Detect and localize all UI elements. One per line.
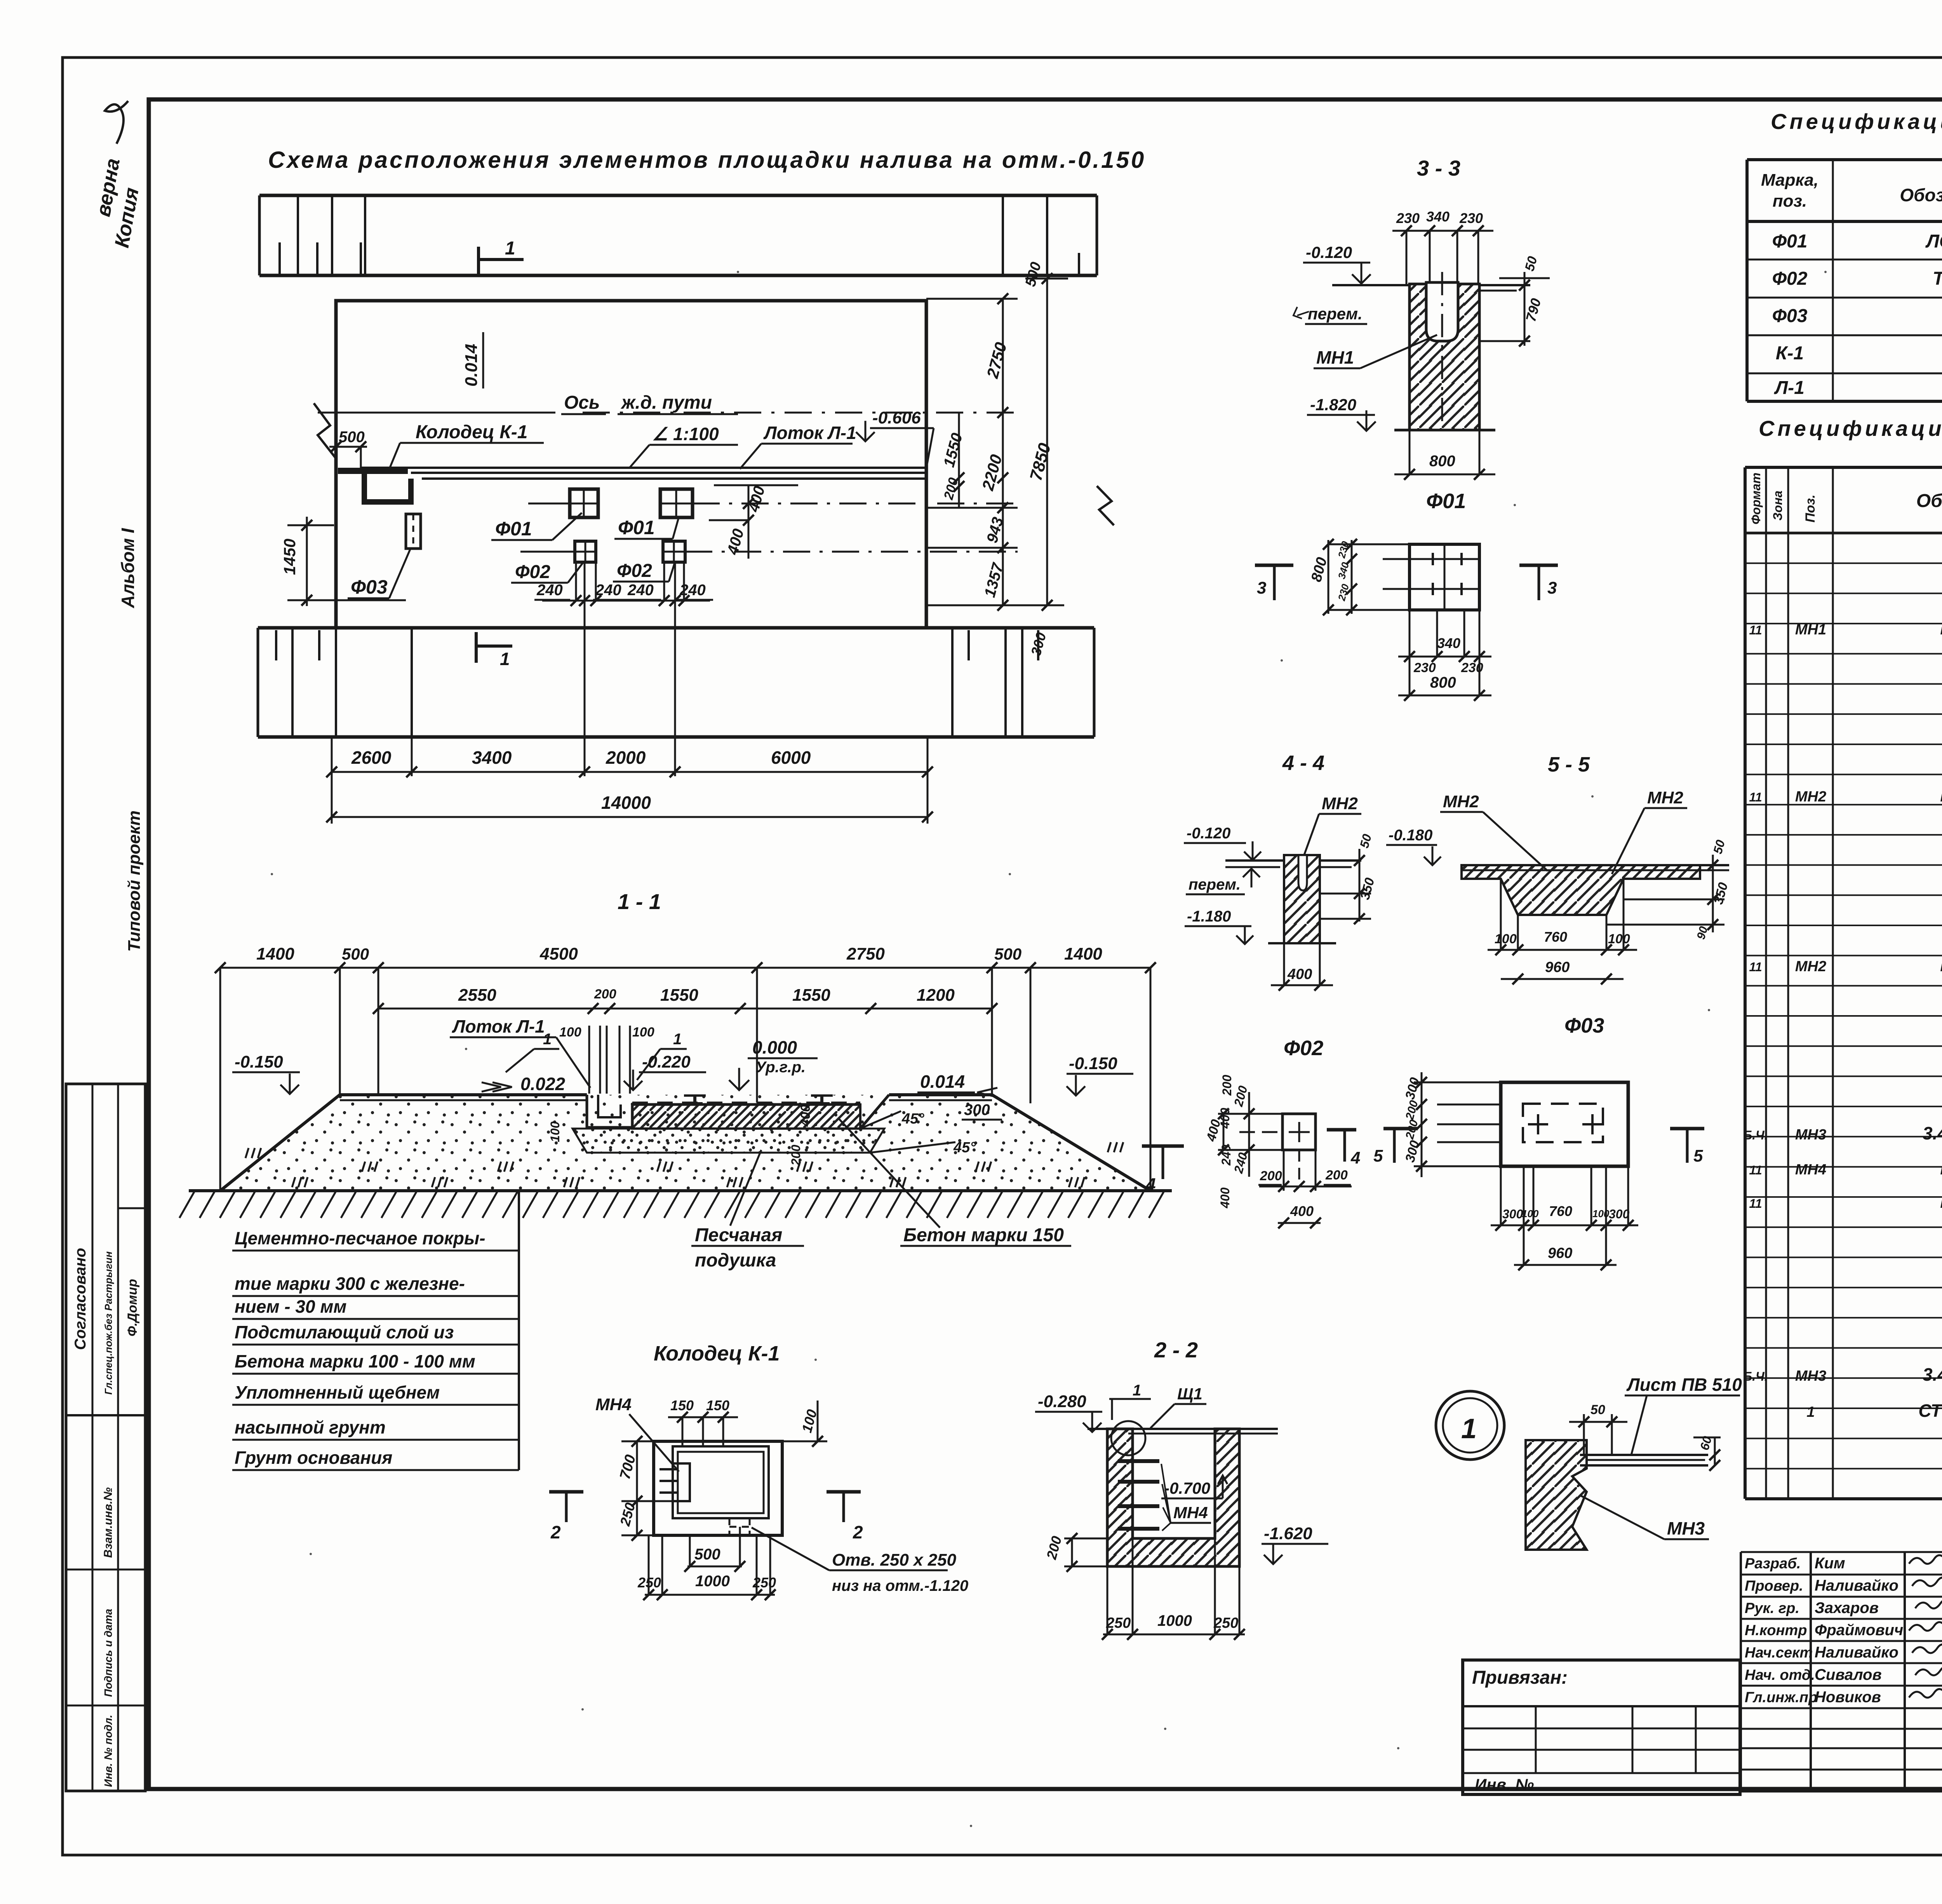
svg-text:Спецификация элементов монолит: Спецификация элементов монолитной констр…: [1759, 416, 1942, 441]
svg-text:11: 11: [1749, 1197, 1762, 1211]
svg-text:500: 500: [339, 429, 365, 446]
5-5 slab hatched: [1462, 865, 1700, 915]
svg-text:1: 1: [1133, 1382, 1141, 1399]
svg-text:240: 240: [627, 582, 654, 599]
svg-text:230: 230: [1413, 660, 1436, 675]
svg-text:МН3: МН3: [1667, 1518, 1705, 1538]
node detail plate: [1580, 1454, 1708, 1456]
svg-text:1: 1: [500, 649, 510, 669]
svg-text:3.400-6/76: 3.400-6/76: [1923, 1123, 1942, 1143]
svg-text:200: 200: [1220, 1075, 1234, 1096]
K-1 dims left: [636, 1441, 638, 1535]
3-3 floor lines: [1332, 284, 1410, 286]
svg-text:Уплотненный щебнем: Уплотненный щебнем: [235, 1382, 440, 1402]
svg-text:230: 230: [1396, 210, 1420, 226]
svg-text:2000: 2000: [606, 747, 646, 768]
svg-text:-0.606: -0.606: [872, 408, 921, 427]
scan speckles: [271, 873, 273, 875]
svg-text:МН3: МН3: [1795, 1368, 1826, 1384]
svg-text:-0.150: -0.150: [235, 1052, 283, 1071]
svg-text:11: 11: [1749, 960, 1762, 974]
plan bottom dims: [331, 737, 333, 824]
svg-text:200: 200: [1325, 1168, 1348, 1183]
svg-text:КЖИ2: КЖИ2: [1940, 955, 1942, 975]
svg-text:3: 3: [1257, 578, 1266, 598]
svg-text:1: 1: [673, 1031, 682, 1048]
svg-text:800: 800: [1429, 453, 1455, 470]
Ф03 plan rect: [1501, 1082, 1628, 1166]
svg-text:МН4: МН4: [1173, 1503, 1208, 1522]
svg-text:насыпной грунт: насыпной грунт: [235, 1417, 386, 1437]
Ф03 left dims: [1421, 1072, 1423, 1177]
svg-text:МН1: МН1: [1795, 622, 1826, 638]
svg-text:760: 760: [1544, 929, 1567, 945]
svg-text:2: 2: [853, 1522, 863, 1542]
svg-text:5: 5: [1373, 1146, 1383, 1165]
svg-text:Ось: Ось: [564, 392, 600, 413]
3-3 slot: [1426, 282, 1458, 341]
Ф03 left lines: [1437, 1104, 1501, 1106]
svg-text:2750: 2750: [846, 944, 885, 963]
svg-text:Колодец К-1: Колодец К-1: [416, 422, 527, 442]
svg-text:перем.: перем.: [1189, 876, 1241, 893]
svg-text:Ф03: Ф03: [1564, 1014, 1604, 1037]
slope 0.022: [482, 1082, 512, 1092]
svg-text:Колодец К-1: Колодец К-1: [654, 1342, 780, 1365]
embankment body dotted fill: [220, 1095, 1150, 1191]
plan platform rectangle: [336, 301, 926, 628]
svg-text:Наливайко: Наливайко: [1815, 1644, 1898, 1661]
svg-text:КЖИ3: КЖИ3: [1940, 1158, 1942, 1178]
axis through F01: [528, 503, 570, 505]
svg-text:-0.180: -0.180: [1389, 827, 1432, 844]
svg-text:800: 800: [1430, 674, 1456, 691]
svg-text:Ф02: Ф02: [617, 561, 652, 581]
svg-text:3400: 3400: [472, 747, 512, 768]
svg-text:Подпись и дата: Подпись и дата: [102, 1609, 114, 1697]
svg-text:Инв. № подл.: Инв. № подл.: [102, 1715, 114, 1787]
svg-text:0.000: 0.000: [752, 1037, 797, 1057]
concrete slab hatched: [632, 1104, 860, 1129]
svg-text:100: 100: [548, 1121, 562, 1142]
foundation F01 squares: [570, 489, 598, 517]
svg-text:Гл.инж.пр: Гл.инж.пр: [1745, 1689, 1817, 1705]
svg-text:250: 250: [1213, 1615, 1238, 1631]
cut mark 4 right of 1-1: [1142, 1144, 1184, 1148]
foundation F02 squares: [575, 541, 596, 562]
45 deg marks: [860, 1111, 901, 1129]
svg-text:400: 400: [798, 1104, 813, 1127]
svg-text:Обозначение: Обозначение: [1916, 491, 1942, 511]
svg-text:250: 250: [752, 1575, 776, 1590]
svg-text:СТ 8706-78: СТ 8706-78: [1918, 1401, 1942, 1421]
plan top railway band: [259, 194, 1097, 197]
2-2 flag 1: [1109, 1398, 1151, 1400]
K-1 dims top: [668, 1416, 738, 1418]
svg-text:Взам.инв.№: Взам.инв.№: [102, 1488, 115, 1558]
K-1 plan: [654, 1441, 782, 1535]
svg-text:Формат: Формат: [1749, 472, 1763, 524]
svg-text:1: 1: [1806, 1404, 1815, 1420]
svg-text:230: 230: [1459, 210, 1483, 226]
3-3 right dims: [1524, 272, 1526, 346]
title block: privyazan box: [1463, 1660, 1740, 1794]
svg-text:Цементно-песчаное покры-: Цементно-песчаное покры-: [235, 1228, 486, 1248]
svg-text:4500: 4500: [539, 944, 578, 963]
svg-text:300: 300: [1502, 1207, 1523, 1221]
svg-text:Ф01: Ф01: [495, 518, 532, 540]
svg-text:100: 100: [559, 1025, 581, 1040]
node 1 marker circle: [1436, 1391, 1504, 1460]
2-2 bottom dims: [1103, 1634, 1245, 1636]
svg-text:Захаров: Захаров: [1815, 1599, 1879, 1617]
4-4 bottom line: [1268, 942, 1336, 944]
svg-text:Инв. №: Инв. №: [1475, 1775, 1534, 1794]
Ф02 plan: [1282, 1114, 1316, 1150]
svg-text:-1.180: -1.180: [1187, 908, 1231, 925]
svg-text:4: 4: [1350, 1148, 1360, 1167]
svg-text:-1.820: -1.820: [1310, 395, 1356, 414]
svg-text:Альбом I: Альбом I: [118, 528, 138, 608]
Ф02 left dims: [1218, 1113, 1282, 1115]
K-1 hole dashed: [729, 1518, 731, 1535]
svg-text:Схема расположения элементов п: Схема расположения элементов площадки на…: [268, 147, 1146, 173]
svg-text:200: 200: [1260, 1169, 1282, 1183]
svg-text:Типовой проект: Типовой проект: [125, 810, 144, 952]
svg-text:11: 11: [1749, 1163, 1762, 1177]
svg-text:-0.220: -0.220: [642, 1052, 691, 1071]
svg-text:4: 4: [1145, 1174, 1156, 1195]
embankment outline: [189, 1095, 587, 1191]
svg-text:МН2: МН2: [1795, 958, 1826, 975]
svg-text:-1.620: -1.620: [1264, 1524, 1312, 1543]
svg-text:Гл.спец.пож.без Растрыгин: Гл.спец.пож.без Растрыгин: [103, 1251, 114, 1395]
svg-text:Обозначение: Обозначение: [1900, 185, 1942, 205]
svg-text:11: 11: [1749, 623, 1762, 637]
svg-text:14000: 14000: [601, 793, 651, 813]
svg-text:340: 340: [1437, 635, 1460, 651]
svg-text:Сивалов: Сивалов: [1815, 1666, 1882, 1683]
svg-text:0.022: 0.022: [520, 1074, 566, 1094]
svg-text:5: 5: [1693, 1146, 1703, 1165]
svg-text:340: 340: [1426, 209, 1450, 225]
svg-text:Подстилающий слой из: Подстилающий слой из: [235, 1322, 454, 1342]
dim 400/400 right of F01: [714, 484, 798, 486]
svg-text:МН3: МН3: [1795, 1127, 1826, 1143]
plan bottom railway band: [258, 626, 1094, 630]
svg-text:1550: 1550: [792, 986, 830, 1005]
svg-text:500: 500: [342, 945, 369, 963]
Ф01 inner lines: [1383, 558, 1479, 560]
K-1 cut marks 2: [549, 1490, 583, 1494]
svg-text:Фраймович: Фраймович: [1815, 1622, 1903, 1639]
drainage channel (section): [587, 1095, 632, 1127]
svg-text:1400: 1400: [256, 944, 294, 963]
node dims 50: [1583, 1414, 1585, 1455]
svg-text:50: 50: [1590, 1402, 1605, 1417]
svg-text:К-1: К-1: [1776, 343, 1804, 364]
1-1 second dim line: [378, 1008, 992, 1010]
svg-text:КЖИ2: КЖИ2: [1940, 785, 1942, 805]
svg-text:Щ1: Щ1: [1177, 1385, 1202, 1403]
svg-text:Рук. гр.: Рук. гр.: [1745, 1600, 1799, 1617]
3-3 foundation body: [1410, 284, 1479, 430]
svg-text:1 - 1: 1 - 1: [618, 889, 661, 914]
svg-text:Грунт основания: Грунт основания: [235, 1448, 392, 1468]
svg-text:Ким: Ким: [1815, 1555, 1845, 1572]
3-3 bottom line: [1394, 429, 1495, 432]
svg-text:Новиков: Новиков: [1815, 1688, 1881, 1705]
svg-text:Ф02: Ф02: [515, 562, 550, 582]
svg-text:Ф02: Ф02: [1284, 1036, 1323, 1060]
Ф01 bottom dims: [1409, 610, 1411, 695]
axis through F02: [520, 551, 575, 553]
svg-text:Б.Ч.: Б.Ч.: [1743, 1369, 1768, 1383]
3-3 dim 800: [1409, 430, 1411, 474]
svg-text:Н.контр: Н.контр: [1745, 1622, 1807, 1639]
4-4 right dims: [1359, 849, 1361, 922]
section flag 1 bottom: [475, 632, 478, 663]
svg-text:Отв. 250 x 250: Отв. 250 x 250: [832, 1550, 957, 1570]
svg-text:МН1: МН1: [1316, 347, 1354, 368]
Ф01 left dims: [1328, 540, 1329, 614]
svg-text:Провер.: Провер.: [1745, 1578, 1803, 1594]
svg-text:тие марки 300 с железне-: тие марки 300 с железне-: [235, 1273, 465, 1294]
svg-text:МН2: МН2: [1443, 792, 1479, 811]
svg-text:3 - 3: 3 - 3: [1417, 156, 1460, 180]
svg-text:Марка,: Марка,: [1761, 171, 1818, 190]
svg-text:250: 250: [637, 1575, 661, 1590]
2-2 anchors МН4: [1118, 1459, 1159, 1463]
svg-text:1200: 1200: [917, 986, 955, 1005]
svg-text:Наливайко: Наливайко: [1815, 1577, 1898, 1594]
spec table 1 grid: [1745, 160, 1749, 401]
svg-text:500: 500: [694, 1546, 720, 1563]
Ф01 cut marks 3: [1255, 564, 1293, 567]
svg-text:300: 300: [964, 1101, 990, 1118]
svg-text:Лист ПВ 510: Лист ПВ 510: [1626, 1374, 1742, 1395]
ground line with hatching: [189, 1189, 1172, 1192]
svg-text:3: 3: [1547, 578, 1557, 598]
drainage channel lines: [361, 467, 926, 469]
node detail wall hatched: [1526, 1440, 1587, 1550]
svg-text:150: 150: [706, 1397, 729, 1413]
K-1 dim 100 right: [782, 1441, 827, 1442]
svg-text:поз.: поз.: [1773, 192, 1807, 211]
svg-text:МН2: МН2: [1322, 794, 1358, 813]
4-4 floor lines: [1225, 859, 1284, 862]
svg-text:-0.280: -0.280: [1038, 1392, 1086, 1411]
2-2 detail circle: [1111, 1421, 1145, 1455]
svg-text:Нач. отд.: Нач. отд.: [1745, 1667, 1815, 1683]
K-1 dim 500: [687, 1566, 742, 1568]
5-5 bottom dims: [1517, 915, 1519, 950]
soil marks: [245, 1148, 249, 1158]
spec table 2 grid: [1744, 467, 1747, 1499]
svg-text:200: 200: [594, 987, 616, 1002]
foundation F03 small rect: [406, 514, 421, 549]
svg-text:∠ 1:100: ∠ 1:100: [652, 424, 719, 444]
svg-text:1: 1: [505, 238, 515, 259]
svg-text:100: 100: [1592, 1208, 1610, 1219]
svg-text:Разраб.: Разраб.: [1745, 1556, 1801, 1572]
svg-text:ж.д. пути: ж.д. пути: [620, 392, 712, 413]
svg-text:0.014: 0.014: [920, 1071, 965, 1092]
svg-text:100: 100: [1608, 932, 1630, 946]
left stamp table: [66, 1084, 145, 1791]
title block: signature table: [1740, 1552, 1742, 1791]
svg-text:Б.Ч.: Б.Ч.: [1743, 1128, 1768, 1142]
svg-text:То же: То же: [1933, 268, 1942, 289]
svg-text:2600: 2600: [351, 747, 392, 768]
svg-text:960: 960: [1548, 1245, 1572, 1261]
svg-text:400: 400: [1218, 1187, 1232, 1209]
svg-text:низ на отм.-1.120: низ на отм.-1.120: [832, 1577, 968, 1594]
svg-text:1400: 1400: [1064, 944, 1102, 963]
svg-text:45°: 45°: [953, 1139, 976, 1156]
svg-text:МН2: МН2: [1647, 788, 1683, 807]
break symbol right: [1097, 486, 1114, 525]
svg-text:КЖИ4: КЖИ4: [1940, 1192, 1942, 1212]
svg-text:250: 250: [1106, 1615, 1131, 1631]
svg-text:100: 100: [1495, 932, 1517, 946]
rails: [684, 1094, 706, 1097]
svg-text:Привязан:: Привязан:: [1472, 1667, 1568, 1688]
4-4 body: [1284, 855, 1320, 943]
svg-text:Зона: Зона: [1771, 491, 1785, 521]
K-1 bottom dims: [645, 1594, 775, 1596]
svg-text:КЖИ1: КЖИ1: [1940, 618, 1942, 638]
svg-text:960: 960: [1545, 959, 1570, 976]
svg-text:0.014: 0.014: [462, 344, 481, 387]
svg-text:1000: 1000: [1157, 1612, 1192, 1629]
svg-text:Согласовано: Согласовано: [72, 1248, 89, 1350]
svg-text:Ф.Домир: Ф.Домир: [125, 1279, 140, 1336]
svg-text:-0.120: -0.120: [1306, 243, 1352, 261]
svg-text:2: 2: [550, 1522, 561, 1542]
Ф03 inner dashed: [1523, 1104, 1603, 1142]
svg-text:Бетона марки 100 - 100 мм: Бетона марки 100 - 100 мм: [235, 1351, 475, 1371]
svg-text:1000: 1000: [695, 1573, 730, 1590]
svg-text:Ур.г.р.: Ур.г.р.: [755, 1059, 806, 1076]
svg-text:МН2: МН2: [1795, 789, 1826, 805]
svg-text:1450: 1450: [280, 539, 299, 575]
svg-text:МН4: МН4: [1795, 1162, 1826, 1178]
cut flags 1 in section: [506, 1049, 534, 1072]
svg-text:Ф01: Ф01: [1772, 231, 1808, 252]
plan right dim chains: [926, 298, 1018, 300]
Ф02 cut mark 4: [1327, 1128, 1356, 1132]
svg-text:760: 760: [1549, 1203, 1572, 1219]
svg-text:3.400-6/76: 3.400-6/76: [1923, 1364, 1942, 1385]
svg-text:ЛС л.4.: ЛС л.4.: [1925, 231, 1942, 252]
section flag 1 top: [477, 247, 480, 276]
svg-text:300: 300: [1609, 1207, 1630, 1221]
svg-text:400: 400: [1287, 966, 1312, 982]
svg-text:перем.: перем.: [1308, 305, 1363, 323]
1-1 top dimension line: [220, 967, 1150, 969]
svg-text:Ф02: Ф02: [1772, 268, 1808, 289]
svg-text:1: 1: [543, 1031, 552, 1048]
railway axis line: [318, 412, 555, 414]
svg-text:240: 240: [536, 582, 563, 599]
5-5 right dims: [1712, 855, 1714, 932]
svg-text:150: 150: [670, 1397, 694, 1413]
svg-text:Ф03: Ф03: [1772, 306, 1808, 326]
svg-text:100: 100: [632, 1025, 654, 1040]
3-3 top dims: [1392, 230, 1493, 232]
svg-text:4 - 4: 4 - 4: [1282, 751, 1324, 775]
svg-text:Спецификация элементов к схеме: Спецификация элементов к схеме расположе…: [1771, 109, 1942, 134]
svg-text:нием - 30 мм: нием - 30 мм: [235, 1296, 346, 1317]
svg-text:Лоток Л-1: Лоток Л-1: [452, 1016, 545, 1036]
svg-text:-0.700: -0.700: [1164, 1479, 1210, 1497]
svg-text:2550: 2550: [458, 986, 496, 1005]
svg-text:1550: 1550: [660, 986, 698, 1005]
break symbol left: [314, 403, 336, 458]
svg-text:1: 1: [1461, 1413, 1477, 1444]
svg-text:400: 400: [1290, 1203, 1314, 1219]
svg-text:11: 11: [1749, 790, 1762, 804]
svg-text:Бетон марки 150: Бетон марки 150: [903, 1225, 1064, 1246]
svg-text:45°: 45°: [901, 1111, 924, 1127]
4-4 dim 400: [1283, 943, 1285, 985]
2-2 dim 200: [1064, 1538, 1107, 1540]
Ф02 below square: [1283, 1150, 1285, 1191]
2-2 top plate: [1088, 1428, 1278, 1430]
svg-text:Ф03: Ф03: [351, 576, 388, 598]
svg-text:100: 100: [1522, 1208, 1539, 1219]
svg-text:-0.150: -0.150: [1069, 1054, 1117, 1073]
svg-text:Нач.сект: Нач.сект: [1745, 1645, 1813, 1661]
svg-text:-0.120: -0.120: [1187, 825, 1230, 842]
1-1 extension verticals: [219, 968, 221, 1191]
svg-text:Лоток Л-1: Лоток Л-1: [763, 423, 856, 443]
Ф01 plan rect: [1410, 544, 1479, 610]
well jog (thick): [338, 468, 408, 474]
svg-text:500: 500: [994, 945, 1021, 963]
svg-text:6000: 6000: [771, 747, 811, 768]
svg-text:200: 200: [789, 1144, 803, 1166]
svg-text:Песчаная: Песчаная: [695, 1225, 782, 1246]
svg-text:подушка: подушка: [695, 1250, 776, 1271]
svg-text:МН4: МН4: [595, 1395, 632, 1414]
svg-text:230: 230: [1461, 660, 1483, 675]
svg-text:5 - 5: 5 - 5: [1548, 753, 1590, 776]
Ф03 bottom dims: [1500, 1166, 1502, 1225]
svg-text:Поз.: Поз.: [1803, 495, 1818, 523]
2-2 trough hatched: [1107, 1429, 1239, 1566]
node dim 60: [1693, 1437, 1721, 1439]
svg-text:Ф01: Ф01: [618, 517, 655, 538]
svg-text:2 - 2: 2 - 2: [1154, 1338, 1198, 1362]
svg-text:Ф01: Ф01: [1426, 490, 1466, 513]
svg-text:Л-1: Л-1: [1774, 378, 1805, 398]
sand cushion: [573, 1129, 884, 1153]
